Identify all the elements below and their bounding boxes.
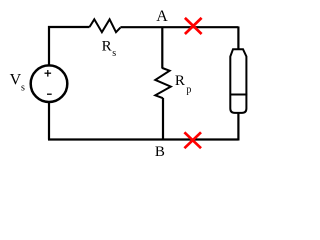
resistor Rs	[90, 19, 121, 32]
load component body (tube)	[230, 49, 246, 113]
svg-text:V: V	[10, 72, 22, 89]
red X bottom	[184, 132, 201, 148]
wire right top (corner down to load)	[237, 27, 239, 50]
plus sign inside source	[45, 70, 52, 77]
resistor Rp	[155, 68, 171, 98]
svg-text:B: B	[155, 144, 165, 160]
voltage source Vs circle	[31, 65, 68, 102]
wire middle branch bottom (Rp down to node B)	[162, 98, 164, 140]
svg-text:A: A	[156, 8, 168, 25]
svg-text:s: s	[21, 83, 25, 94]
wire right bottom (load to bottom rail)	[237, 113, 239, 141]
red X top	[185, 18, 202, 34]
minus sign inside source	[47, 93, 52, 95]
wire middle branch top (node A down to Rp)	[161, 27, 163, 69]
svg-text:s: s	[112, 48, 116, 59]
load component divider line	[230, 94, 248, 96]
svg-text:R: R	[102, 39, 112, 55]
wire left bottom (source to bottom rail)	[48, 102, 50, 140]
wire top-right segment (Rs to node A to corner)	[120, 26, 238, 28]
wire top-left segment	[49, 27, 90, 65]
svg-text:p: p	[186, 85, 191, 96]
bottom wire rail	[48, 138, 238, 140]
svg-text:R: R	[175, 73, 185, 89]
